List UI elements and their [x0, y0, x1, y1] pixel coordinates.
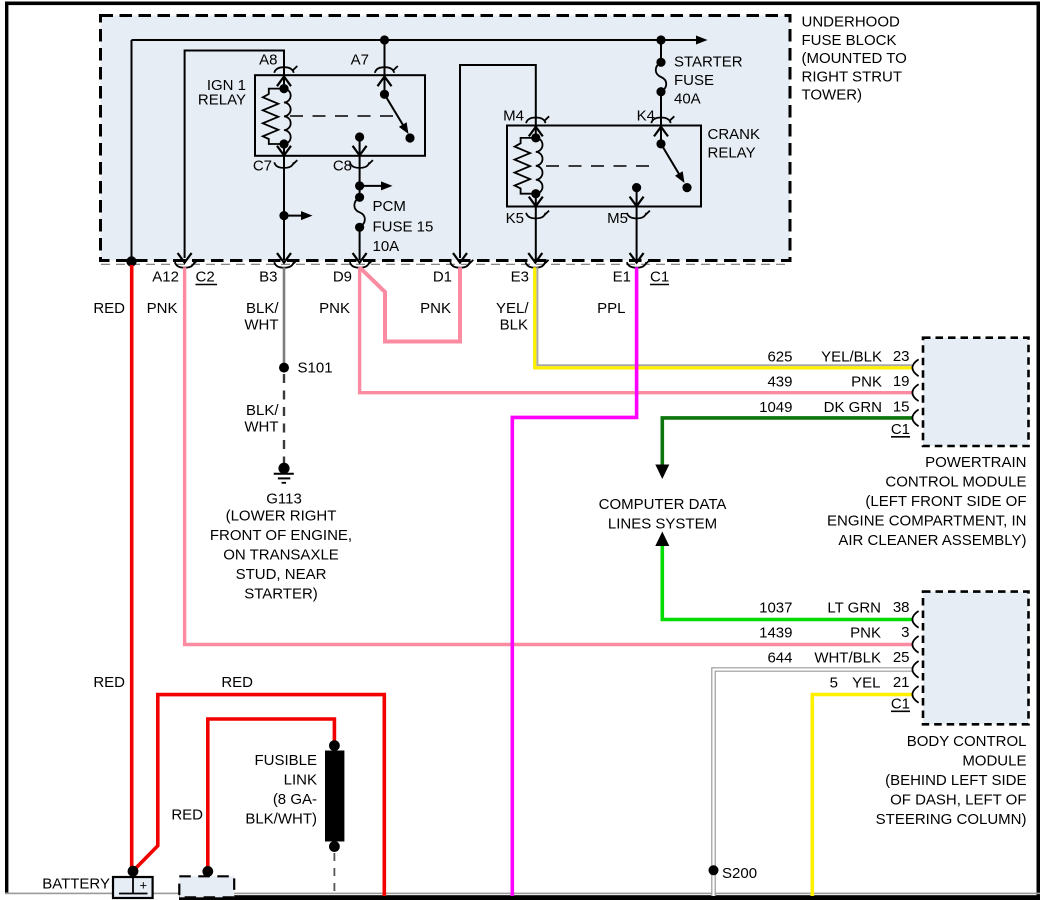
svg-text:PNK: PNK — [851, 374, 882, 391]
component box next to battery — [179, 876, 234, 897]
svg-text:M5: M5 — [607, 210, 628, 227]
svg-text:RELAY: RELAY — [198, 92, 246, 109]
svg-text:COMPUTER DATA: COMPUTER DATA — [599, 496, 727, 513]
fuse block bottom thin dashed line — [101, 263, 790, 265]
svg-text:C7: C7 — [253, 158, 272, 175]
svg-text:PNK: PNK — [850, 625, 881, 642]
CRANK switch contact node — [682, 183, 691, 192]
svg-text:M4: M4 — [503, 108, 524, 125]
pin M4 cup — [526, 116, 549, 123]
arrow pin D1 — [453, 253, 467, 263]
wire PNK A12 to BCM pin3 — [185, 267, 912, 644]
arrow pin D9 — [353, 253, 367, 263]
pin E3 cup — [526, 260, 549, 268]
svg-text:AIR CLEANER ASSEMBLY): AIR CLEANER ASSEMBLY) — [838, 532, 1026, 549]
pin D1 cup — [450, 260, 473, 268]
svg-text:E3: E3 — [511, 269, 529, 286]
svg-text:WHT/BLK: WHT/BLK — [814, 650, 881, 667]
svg-text:439: 439 — [767, 374, 792, 391]
relay coil IGN1 resistor zigzag — [263, 89, 284, 144]
svg-text:E1: E1 — [613, 269, 631, 286]
svg-text:LT GRN: LT GRN — [827, 600, 881, 617]
wire RED battery feed — [130, 265, 134, 869]
pin A7 cup — [375, 66, 398, 73]
arrow pin E1 — [630, 253, 644, 263]
svg-text:21: 21 — [893, 674, 910, 691]
wire DK GRN PCM pin15 to data lines — [662, 418, 912, 466]
svg-text:BODY CONTROL: BODY CONTROL — [907, 733, 1027, 750]
node second box terminal — [202, 866, 213, 877]
wire top supply rail — [132, 39, 698, 41]
svg-text:ENGINE COMPARTMENT, IN: ENGINE COMPARTMENT, IN — [827, 513, 1026, 530]
fuse STARTER FUSE element — [656, 62, 667, 91]
svg-text:(LOWER RIGHT: (LOWER RIGHT — [226, 508, 337, 525]
svg-text:RED: RED — [221, 674, 253, 691]
ground bus bar bottom — [179, 895, 1040, 900]
svg-text:CONTROL MODULE: CONTROL MODULE — [885, 474, 1026, 491]
svg-text:FUSE 15: FUSE 15 — [373, 219, 434, 236]
svg-text:RED: RED — [171, 807, 203, 824]
svg-text:LINES SYSTEM: LINES SYSTEM — [608, 515, 717, 532]
op CRANK relay box — [507, 126, 701, 207]
wire LT GRN data lines to BCM pin38 — [662, 546, 912, 620]
pin 19 cup — [912, 384, 918, 401]
svg-text:1439: 1439 — [759, 625, 792, 642]
wire WHT/BLK BCM pin25 white core — [714, 670, 913, 897]
svg-text:C1: C1 — [891, 696, 910, 713]
arrow M5 exit — [630, 197, 644, 207]
IGN1 switch pivot node — [380, 90, 389, 99]
svg-text:BLK/: BLK/ — [246, 300, 279, 317]
svg-text:WHT: WHT — [244, 419, 278, 436]
svg-text:K5: K5 — [506, 210, 524, 227]
pin A8 cup — [274, 66, 297, 73]
border frame left — [5, 2, 8, 893]
svg-text:RED: RED — [93, 674, 125, 691]
svg-text:POWERTRAIN: POWERTRAIN — [925, 454, 1026, 471]
svg-text:LINK: LINK — [284, 772, 317, 789]
ground G113 symbol — [278, 463, 289, 474]
border frame right — [1037, 2, 1041, 898]
arrow C8 exit — [353, 146, 367, 156]
pin E1 cup — [627, 260, 650, 268]
wire WHT/BLK BCM pin25 outer — [714, 670, 913, 897]
arrow pin A12 — [178, 253, 192, 263]
IGN1 switch contact node — [405, 133, 414, 142]
pin D9 cup — [350, 260, 373, 268]
svg-text:YEL/: YEL/ — [496, 300, 529, 317]
border frame top — [5, 2, 1040, 6]
pin 21 cup — [912, 686, 918, 703]
node junction starter fuse tap — [656, 35, 665, 44]
relay coil IGN1 bottom node — [279, 139, 288, 148]
svg-text:RELAY: RELAY — [708, 145, 756, 162]
pin 23 cup — [912, 359, 918, 376]
svg-text:625: 625 — [767, 349, 792, 366]
svg-text:DK GRN: DK GRN — [824, 399, 882, 416]
node block bottom feed — [126, 256, 136, 266]
wire switch output to M5 — [636, 188, 638, 260]
arrow K5 exit — [529, 197, 543, 207]
fuse PCM FUSE 15 nodes — [355, 193, 364, 202]
svg-text:38: 38 — [893, 599, 910, 616]
relay coil IGN1 loops — [284, 89, 291, 144]
node junction A7 tap — [380, 35, 389, 44]
svg-text:STARTER): STARTER) — [244, 586, 318, 603]
svg-text:STUD, NEAR: STUD, NEAR — [236, 566, 327, 583]
svg-text:(8 GA-: (8 GA- — [273, 791, 317, 808]
svg-text:ON TRANSAXLE: ON TRANSAXLE — [223, 547, 339, 564]
svg-text:(BEHIND LEFT SIDE: (BEHIND LEFT SIDE — [885, 772, 1026, 789]
battery plates — [132, 877, 134, 894]
pin K5 cup — [526, 211, 549, 219]
wire switch output to C8 — [359, 137, 361, 197]
splice S101 — [279, 363, 289, 373]
svg-text:S200: S200 — [722, 865, 757, 882]
border frame bottom thin line — [5, 893, 1040, 895]
svg-text:C1: C1 — [891, 421, 910, 438]
svg-text:1049: 1049 — [759, 399, 792, 416]
arrow up data lines — [655, 532, 669, 547]
node C7 tap — [279, 211, 288, 220]
CRANK switch pivot node — [656, 139, 665, 148]
relay coil CRANK resistor zigzag — [515, 138, 536, 194]
relay coil CRANK loops — [536, 138, 543, 194]
wire PPL E1 drop — [512, 267, 636, 896]
svg-text:BLK/: BLK/ — [246, 402, 279, 419]
svg-text:D1: D1 — [433, 269, 452, 286]
wire PNK D9-D1 jumper — [360, 267, 460, 341]
CRANK switch output node — [632, 183, 641, 192]
svg-text:A7: A7 — [351, 52, 369, 69]
svg-text:FRONT OF ENGINE,: FRONT OF ENGINE, — [210, 527, 352, 544]
pin C7 cup — [274, 160, 297, 168]
svg-text:(LEFT FRONT SIDE OF: (LEFT FRONT SIDE OF — [865, 493, 1026, 510]
svg-text:PNK: PNK — [147, 300, 178, 317]
svg-text:OF DASH, LEFT OF: OF DASH, LEFT OF — [890, 792, 1026, 809]
pin M5 cup — [627, 211, 650, 219]
wire coil to C7 — [283, 144, 285, 260]
svg-text:YEL: YEL — [852, 675, 880, 692]
pin 38 cup — [912, 611, 918, 628]
fusible link node top — [329, 740, 340, 751]
pin 25 cup — [912, 661, 918, 678]
wire RED fusible link run — [208, 719, 335, 869]
wire fuse to K4 — [660, 92, 662, 144]
svg-text:(MOUNTED TO: (MOUNTED TO — [802, 50, 907, 67]
relay coil CRANK bottom node — [531, 189, 540, 198]
CRANK switch arm — [661, 144, 679, 174]
svg-text:19: 19 — [893, 373, 910, 390]
svg-text:PCM: PCM — [373, 198, 406, 215]
arrow C8 tap right — [360, 185, 382, 187]
fuse PCM FUSE 15 element — [354, 197, 365, 227]
CRANK linkage dashed — [546, 165, 650, 167]
wire A8 feed from left rail — [185, 51, 284, 259]
svg-text:C1: C1 — [650, 269, 669, 286]
pin A12 cup — [175, 260, 198, 268]
wire YEL/BLK E3 to PCM pin23 — [535, 267, 912, 368]
svg-text:3: 3 — [901, 624, 909, 641]
svg-text:1037: 1037 — [759, 600, 792, 617]
relay coil IGN1 top node — [279, 84, 288, 93]
battery node — [128, 866, 139, 877]
svg-text:15: 15 — [893, 399, 910, 416]
wire BLK/WHT B3 to S101 — [283, 267, 286, 367]
svg-text:10A: 10A — [373, 238, 400, 255]
module PCM box — [923, 338, 1029, 446]
svg-text:BLK: BLK — [500, 317, 528, 334]
IGN1 linkage dashed — [290, 115, 393, 117]
battery box — [113, 877, 153, 898]
wire RED second run — [133, 695, 384, 896]
arrow A8 entry — [277, 77, 291, 87]
arrow down data lines — [655, 465, 669, 480]
svg-text:BLK/WHT): BLK/WHT) — [245, 811, 317, 828]
wire D1 to M4 feed — [460, 65, 536, 258]
svg-text:STEERING COLUMN): STEERING COLUMN) — [876, 811, 1027, 828]
arrow M4 entry — [529, 127, 543, 137]
wire starter fuse drop — [660, 40, 662, 62]
arrow C7 tap right — [284, 215, 302, 217]
svg-text:UNDERHOOD: UNDERHOOD — [802, 14, 901, 31]
arrow K4 entry — [654, 127, 668, 137]
svg-text:+: + — [140, 878, 148, 893]
pin C8 cup — [350, 160, 373, 168]
svg-text:A12: A12 — [152, 269, 179, 286]
wire YEL/BLK grey stripe — [537, 267, 912, 365]
pin 15 cup — [912, 410, 918, 427]
svg-text:FUSE: FUSE — [674, 72, 714, 89]
wire BLK/WHT dashed to ground — [283, 374, 285, 466]
wire A7 drop — [384, 40, 386, 94]
wire dashed fusible link to ground bus — [333, 853, 335, 895]
arrow pin B3 — [277, 253, 291, 263]
svg-text:B3: B3 — [259, 269, 277, 286]
svg-text:5: 5 — [830, 675, 838, 692]
fusible link body — [325, 751, 344, 842]
underhood fuse block box — [101, 16, 791, 261]
svg-text:25: 25 — [893, 649, 910, 666]
svg-text:TOWER): TOWER) — [802, 87, 863, 104]
arrow C7 exit — [277, 146, 291, 156]
svg-text:C2: C2 — [196, 269, 215, 286]
pin B3 cup — [274, 260, 297, 268]
pin K4 cup — [651, 116, 674, 123]
splice S200 — [709, 865, 719, 875]
svg-text:23: 23 — [893, 348, 910, 365]
svg-text:STARTER: STARTER — [674, 54, 743, 71]
module BCM box — [923, 592, 1029, 725]
svg-text:MODULE: MODULE — [962, 753, 1026, 770]
fuse STARTER FUSE nodes — [656, 58, 665, 67]
fusible link node bottom — [329, 841, 340, 852]
svg-text:A8: A8 — [259, 52, 277, 69]
arrow A7 entry — [378, 77, 392, 87]
svg-text:S101: S101 — [298, 360, 333, 377]
svg-text:C8: C8 — [333, 158, 352, 175]
svg-text:FUSE BLOCK: FUSE BLOCK — [802, 32, 897, 49]
svg-text:WHT: WHT — [244, 317, 278, 334]
pin 3 cup — [912, 636, 918, 653]
wire coil to K5 — [535, 194, 537, 260]
svg-text:PPL: PPL — [597, 300, 625, 317]
svg-text:RIGHT STRUT: RIGHT STRUT — [802, 68, 903, 85]
svg-text:D9: D9 — [333, 269, 352, 286]
svg-text:PNK: PNK — [420, 300, 451, 317]
svg-text:FUSIBLE: FUSIBLE — [254, 752, 317, 769]
node C8 tap — [355, 181, 364, 190]
svg-text:644: 644 — [767, 650, 792, 667]
svg-text:G113: G113 — [266, 491, 302, 508]
wire PNK D9 to PCM pin19 — [360, 267, 912, 392]
arrow pin E3 — [528, 253, 542, 263]
relay coil CRANK top node — [531, 133, 540, 142]
IGN1 switch output node — [355, 132, 364, 141]
svg-text:40A: 40A — [674, 91, 701, 108]
svg-text:YEL/BLK: YEL/BLK — [821, 349, 882, 366]
IGN1 switch arm — [385, 94, 404, 125]
wire left drop to block bottom node — [131, 40, 133, 260]
wire YEL BCM pin21 drop — [812, 695, 912, 897]
op IGN 1 relay box — [255, 75, 425, 156]
svg-text:CRANK: CRANK — [708, 126, 761, 143]
svg-text:PNK: PNK — [319, 300, 350, 317]
svg-text:RED: RED — [93, 300, 125, 317]
svg-text:BATTERY: BATTERY — [42, 876, 110, 893]
